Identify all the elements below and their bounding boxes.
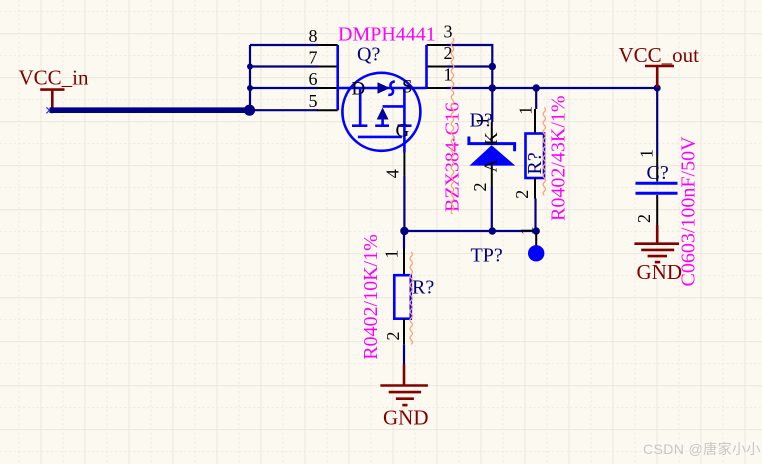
resistor R? 10K — [382, 231, 411, 365]
transistor Q? pin 5 — [309, 91, 338, 111]
ground symbol (bottom) — [380, 365, 428, 406]
wire (bottom row) — [404, 230, 536, 232]
transistor Q? pin 3 — [427, 22, 453, 46]
junction — [533, 84, 540, 91]
wire (gate drop) — [403, 176, 405, 231]
svg-text:VCC_in: VCC_in — [19, 65, 90, 89]
test point TP? — [517, 226, 544, 261]
ground symbol (right) — [634, 225, 679, 262]
svg-text:8: 8 — [309, 26, 318, 46]
power port VCC_in — [40, 90, 64, 109]
junction — [400, 227, 408, 235]
svg-text:TP?: TP? — [471, 245, 503, 267]
transistor Q? pin 1 — [427, 65, 453, 89]
svg-text:D?: D? — [470, 110, 493, 132]
power port VCC_out — [645, 66, 674, 88]
wire (pin 8 row) — [250, 44, 318, 46]
svg-text:6: 6 — [309, 69, 318, 89]
svg-text:1: 1 — [637, 149, 657, 158]
svg-text:2: 2 — [383, 332, 403, 341]
junction — [247, 85, 253, 91]
svg-text:A: A — [481, 159, 501, 172]
no-ERC cross marker — [46, 107, 52, 113]
transistor Q? pin 8 — [309, 26, 338, 46]
wire (pin 5 row) — [250, 109, 318, 111]
transistor Q? pin 7 — [309, 48, 338, 68]
svg-text:GND: GND — [637, 260, 683, 284]
svg-text:D: D — [352, 79, 366, 100]
svg-text:VCC_out: VCC_out — [619, 43, 700, 67]
transistor Q? pin 2 — [427, 43, 453, 67]
svg-text:K: K — [481, 132, 501, 145]
zener diode D? — [469, 137, 515, 166]
junction — [533, 227, 540, 234]
wire (zener bottom) — [491, 187, 493, 231]
transistor Q? body — [338, 45, 427, 153]
svg-text:GND: GND — [383, 406, 429, 430]
transistor Q? pin 4 — [382, 153, 404, 179]
svg-text:R?: R? — [412, 277, 434, 299]
svg-text:S: S — [402, 77, 413, 98]
svg-text:5: 5 — [309, 91, 318, 111]
junction — [489, 84, 496, 91]
svg-text:DMPH4441: DMPH4441 — [338, 24, 436, 46]
resistor R? 43K — [512, 88, 544, 231]
svg-text:Q?: Q? — [357, 44, 380, 66]
svg-text:2: 2 — [470, 183, 490, 192]
svg-text:1: 1 — [517, 226, 537, 235]
junction — [654, 85, 661, 92]
wire (right ladder top) — [447, 45, 492, 122]
wire (left ladder vertical) — [249, 45, 251, 110]
svg-text:1: 1 — [516, 106, 536, 115]
wire (main output row) — [447, 87, 657, 89]
svg-text:R0402/10K/1%: R0402/10K/1% — [360, 234, 382, 360]
spell squiggle (R0402/10K) — [410, 252, 413, 344]
svg-text:1: 1 — [382, 250, 402, 259]
zener D? pin 2 (bottom) — [470, 159, 501, 191]
wire (pin 2 row right) — [447, 65, 492, 67]
svg-text:4: 4 — [382, 169, 402, 178]
junction — [489, 227, 496, 234]
svg-text:2: 2 — [512, 190, 532, 199]
zener D? pin 1 (top) — [473, 117, 502, 146]
transistor Q? pin 6 — [309, 69, 338, 89]
junction (thick bus) — [244, 105, 255, 116]
spell squiggle (R0402/43K) — [543, 108, 546, 196]
svg-text:7: 7 — [309, 48, 318, 68]
junction — [489, 63, 496, 70]
junction — [247, 64, 253, 70]
svg-text:3: 3 — [444, 22, 453, 42]
capacitor C? — [634, 88, 678, 225]
wire (thick VCC_in bus) — [50, 107, 251, 113]
svg-text:G: G — [396, 121, 410, 142]
wire (pin 6 row) — [250, 87, 318, 89]
svg-text:R0402/43K/1%: R0402/43K/1% — [548, 95, 570, 221]
svg-text:C?: C? — [647, 162, 669, 184]
spell squiggle (BZX384-C16) — [451, 38, 454, 214]
svg-text:CSDN @唐家小小: CSDN @唐家小小 — [643, 441, 761, 457]
svg-text:R?: R? — [524, 152, 546, 174]
svg-text:2: 2 — [634, 214, 654, 223]
wire (pin 7 row) — [250, 65, 318, 67]
